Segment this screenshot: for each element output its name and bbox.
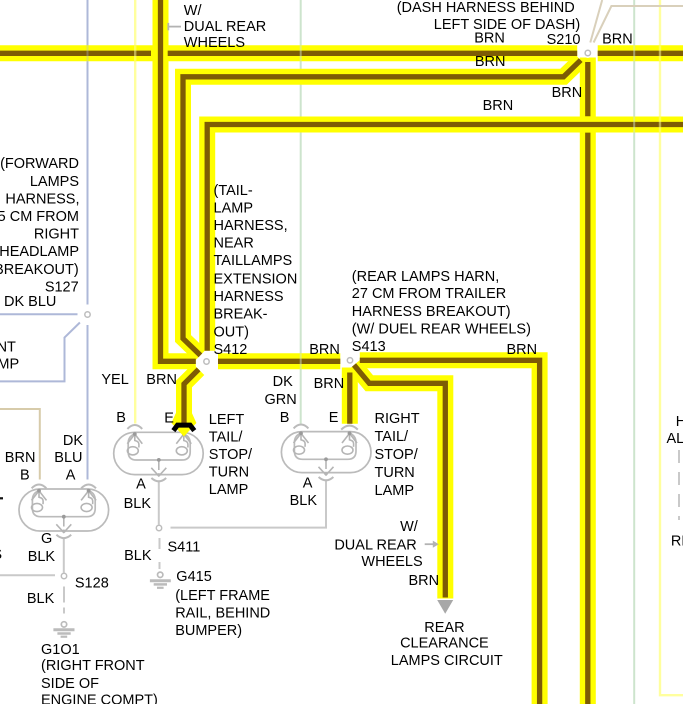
svg-text:TURN: TURN <box>375 465 415 481</box>
svg-text:BREAKOUT): BREAKOUT) <box>0 262 79 278</box>
black terminal cap at left tail lamp E <box>173 425 194 431</box>
svg-text:STOP/: STOP/ <box>375 447 419 463</box>
svg-text:BRN: BRN <box>309 342 340 358</box>
svg-text:BRN: BRN <box>314 376 345 392</box>
harness leads at S210 (tan) <box>590 0 683 43</box>
svg-text:BREAK-: BREAK- <box>214 307 268 323</box>
svg-text:LAMPS: LAMPS <box>30 174 79 190</box>
splice S413 node <box>345 355 355 365</box>
wire BRN horizontal bus y=53 (brown, gap at main vertical) <box>0 51 151 56</box>
svg-text:A: A <box>303 475 313 491</box>
svg-text:B: B <box>116 410 126 426</box>
wire BRN S413 to corner x=539.6 down (yellow) <box>360 360 540 704</box>
leftmost lamp terminal A arrow and bulb <box>81 491 96 512</box>
svg-text:WHEELS: WHEELS <box>184 35 245 51</box>
annotation arrow bottom right (W/ DUAL REAR WHEELS) <box>425 541 439 548</box>
wire pale yellow right side with corner <box>660 0 683 695</box>
svg-text:S210: S210 <box>547 32 581 48</box>
svg-text:HARNESS BREAKOUT): HARNESS BREAKOUT) <box>352 304 511 320</box>
wire DK GRN to right tail lamp B (pale green, unhighlighted) <box>300 0 302 424</box>
svg-text:E: E <box>164 410 174 426</box>
left edge partial tick <box>0 497 3 499</box>
svg-text:HARNESS,: HARNESS, <box>5 191 79 207</box>
wire BRN to leftmost lamp B (tan, unhighlighted) <box>0 409 40 480</box>
wire BLK leftmost lamp G to S128 <box>63 539 65 573</box>
svg-text:(TAIL-: (TAIL- <box>214 183 253 199</box>
wire BRN S412-S210 via corner x=183 (yellow) <box>183 60 581 355</box>
ground G101 symbol <box>53 622 74 637</box>
wire BRN S210 vertical (brown, gap at y=124.5 crossing) <box>585 62 590 116</box>
wire BLK S128 to ground G101 (dashed) <box>63 587 65 619</box>
svg-text:A: A <box>66 467 76 483</box>
leftmost lamp cap arcs <box>32 484 96 538</box>
wire BRN horizontal bus y=53 (yellow) <box>0 45 577 61</box>
svg-text:BUMPER): BUMPER) <box>175 623 242 639</box>
wire BLK S411 to ground G415 (dashed) <box>159 538 161 569</box>
svg-text:LEFT SIDE OF DASH): LEFT SIDE OF DASH) <box>434 17 580 33</box>
svg-text:HARNESS: HARNESS <box>214 289 284 305</box>
right tail lamp terminal B arrow and bulb <box>294 433 309 454</box>
svg-text:G: G <box>41 531 52 547</box>
svg-text:27 CM FROM TRAILER: 27 CM FROM TRAILER <box>352 286 506 302</box>
svg-text:OUT): OUT) <box>214 325 249 341</box>
svg-text:BRN: BRN <box>552 85 583 101</box>
wire BRN S412 to left tail lamp E (yellow) <box>184 369 199 414</box>
wire BRN main vertical to S412 (yellow) <box>161 0 196 361</box>
wire BRN S413 branch to rear clearance (yellow) <box>354 365 445 599</box>
svg-text:LAMP: LAMP <box>375 483 415 499</box>
left tail lamp terminal B arrow and bulb <box>127 434 142 455</box>
svg-text:S411: S411 <box>168 540 201 556</box>
svg-text:B: B <box>280 410 290 426</box>
svg-text:E: E <box>329 410 339 426</box>
wire DK BLU from S127 (lavender, unhighlighted) <box>0 0 88 480</box>
svg-text:B: B <box>20 467 30 483</box>
svg-text:(DASH HARNESS BEHIND: (DASH HARNESS BEHIND <box>397 0 575 16</box>
thin circuit lines crossing over highlighted wires (translucent) <box>88 45 661 369</box>
lamp LEFTMOST (park lamp) body <box>19 489 109 531</box>
svg-text:BLK: BLK <box>124 496 152 512</box>
svg-text:DK: DK <box>273 374 293 390</box>
svg-text:BRN: BRN <box>474 30 505 46</box>
svg-text:BRN: BRN <box>602 31 633 47</box>
svg-text:GRN: GRN <box>265 392 297 408</box>
svg-text:DK BLU: DK BLU <box>4 294 56 310</box>
svg-text:LEFT: LEFT <box>209 412 245 428</box>
svg-text:BRN: BRN <box>5 450 36 466</box>
svg-text:5 CM FROM: 5 CM FROM <box>0 209 79 225</box>
svg-text:HARNESS,: HARNESS, <box>214 218 288 234</box>
lamp LEFT TAIL/STOP/TURN body <box>114 432 204 474</box>
svg-text:RIGHT: RIGHT <box>375 411 420 427</box>
svg-text:G1O1: G1O1 <box>41 642 80 658</box>
svg-text:ENGINE COMPT): ENGINE COMPT) <box>41 693 158 704</box>
svg-text:BLK: BLK <box>28 549 56 565</box>
svg-text:BLK: BLK <box>290 493 318 509</box>
svg-text:HEADLAMP: HEADLAMP <box>0 244 79 260</box>
svg-text:SIDE OF: SIDE OF <box>41 676 99 692</box>
leftmost lamp terminal B arrow and bulb <box>32 491 47 512</box>
right tail lamp terminal A arrow <box>319 460 334 475</box>
svg-text:LAMP: LAMP <box>214 201 254 217</box>
svg-text:(W/ DUEL REAR WHEELS): (W/ DUEL REAR WHEELS) <box>352 321 531 337</box>
wire YEL to left tail lamp B (pale yellow, unhighlighted) <box>134 0 136 424</box>
wire BLK S411 to right tail lamp A <box>171 480 327 528</box>
svg-text:(LEFT FRAME: (LEFT FRAME <box>175 588 270 604</box>
svg-text:DUAL REAR: DUAL REAR <box>334 537 416 553</box>
svg-text:RIGHT: RIGHT <box>34 227 79 243</box>
wire BRN S412 to S413 (yellow) <box>218 353 340 369</box>
svg-text:H: H <box>676 414 683 430</box>
svg-text:S128: S128 <box>75 576 109 592</box>
wire BRN S412 riser and horizontal y=124.5 (yellow) <box>207 125 683 351</box>
svg-text:AL: AL <box>667 431 683 447</box>
svg-text:LAMPS CIRCUIT: LAMPS CIRCUIT <box>391 653 503 669</box>
svg-text:TAILLAMPS: TAILLAMPS <box>214 253 293 269</box>
svg-text:BLK: BLK <box>27 591 55 607</box>
arrowhead REAR CLEARANCE LAMPS CIRCUIT <box>437 600 453 614</box>
svg-text:STOP/: STOP/ <box>209 447 253 463</box>
svg-text:MP: MP <box>0 356 19 372</box>
svg-text:W/: W/ <box>400 519 419 535</box>
left tail lamp terminal E arrow and bulb <box>176 434 191 455</box>
svg-text:BRN: BRN <box>475 54 506 70</box>
wire BLK S128 to left edge <box>0 574 55 576</box>
svg-text:BRN: BRN <box>507 342 538 358</box>
right tail lamp cap arcs <box>294 425 358 481</box>
svg-text:(REAR LAMPS HARN,: (REAR LAMPS HARN, <box>352 269 499 285</box>
svg-text:BRN: BRN <box>146 372 177 388</box>
svg-text:(RIGHT FRONT: (RIGHT FRONT <box>41 658 145 674</box>
svg-text:(FORWARD: (FORWARD <box>0 156 79 172</box>
svg-text:DK: DK <box>63 433 83 449</box>
svg-text:TAIL/: TAIL/ <box>209 429 244 445</box>
svg-text:S413: S413 <box>352 339 386 355</box>
svg-text:TURN: TURN <box>209 465 249 481</box>
svg-text:S: S <box>0 547 2 563</box>
svg-text:TAIL/: TAIL/ <box>375 429 410 445</box>
svg-text:CLEARANCE: CLEARANCE <box>400 636 489 652</box>
wire BRN S210 vertical (yellow) <box>580 58 596 704</box>
splice S411 node <box>156 525 161 530</box>
svg-text:G415: G415 <box>176 569 211 585</box>
svg-text:S412: S412 <box>214 342 248 358</box>
svg-text:WHEELS: WHEELS <box>361 554 422 570</box>
svg-text:W/: W/ <box>184 3 203 19</box>
left tail lamp terminal A arrow <box>151 460 166 476</box>
wire BRN S412 riser and horizontal y=124.5 (brown) <box>207 125 683 351</box>
wire BRN S413 to right lamp E (yellow) <box>342 368 358 424</box>
svg-text:LAMP: LAMP <box>209 482 249 498</box>
svg-text:BLU: BLU <box>54 450 82 466</box>
ground G415 symbol <box>150 572 171 588</box>
svg-text:BRN: BRN <box>409 573 440 589</box>
svg-text:BRN: BRN <box>483 98 514 114</box>
splice S127 node <box>85 312 90 317</box>
lamp RIGHT TAIL/STOP/TURN body <box>281 432 371 473</box>
wire BRN S412-S210 via corner x=183 (brown) <box>183 60 581 355</box>
dashed lead right edge component <box>678 450 680 520</box>
svg-text:NEAR: NEAR <box>214 236 254 252</box>
splice S210 node <box>583 48 593 58</box>
svg-text:REAR: REAR <box>424 620 464 636</box>
wire BRN S412 to left tail lamp E (brown) <box>184 369 199 424</box>
wire BLK left tail lamp A to S411 <box>158 482 160 525</box>
wire BRN main vertical to S412 (brown) <box>161 0 196 361</box>
leftmost lamp terminal G arrow <box>56 517 71 533</box>
splice S412 node <box>202 357 212 367</box>
wire BRN S412 to S413 (brown) <box>218 359 340 364</box>
wire green right side <box>633 0 635 704</box>
svg-text:RE: RE <box>671 534 683 550</box>
splice S128 node <box>61 573 66 578</box>
svg-text:DUAL REAR: DUAL REAR <box>184 19 266 35</box>
wire BRN S413 to corner x=539.6 down (brown) <box>360 360 540 704</box>
svg-text:NT: NT <box>0 339 16 355</box>
annotation arrow top (W/ DUAL REAR WHEELS) <box>168 23 181 30</box>
left tail lamp cap arcs (B gray, A bottom gray) <box>127 425 166 481</box>
svg-text:A: A <box>136 477 146 493</box>
yellow highlight diamond at left tail lamp E <box>171 413 196 437</box>
svg-text:YEL: YEL <box>101 372 128 388</box>
wire BRN S413 to right lamp E (brown) <box>347 373 352 424</box>
wire BRN S413 branch to rear clearance (brown) <box>354 365 445 598</box>
svg-text:RAIL, BEHIND: RAIL, BEHIND <box>175 606 270 622</box>
right tail lamp terminal E arrow and bulb <box>342 433 357 454</box>
svg-text:BLK: BLK <box>124 548 152 564</box>
svg-text:EXTENSION: EXTENSION <box>214 271 298 287</box>
